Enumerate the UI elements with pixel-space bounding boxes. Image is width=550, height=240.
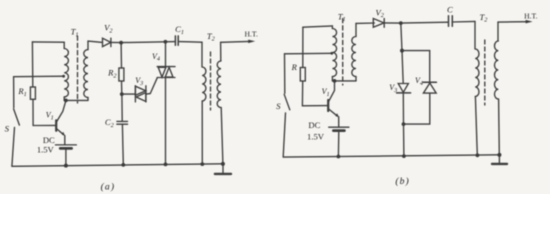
wire top-left segment (a): [32, 41, 64, 43]
transformer T2 primary winding (a): [201, 42, 203, 67]
arrow H.T. (b): [526, 20, 533, 24]
triac V4 (a): [157, 67, 175, 78]
wire T1 secondary top to diode (b): [356, 22, 374, 24]
transformer T1 core (b): [342, 19, 344, 86]
battery positive plate (a): [55, 144, 76, 146]
transformer T1 primary winding left (a): [63, 42, 65, 48]
capacitor C (b): [449, 16, 453, 26]
battery negative plate (a): [60, 147, 71, 150]
transistor V1 (b): [328, 81, 339, 127]
wire battery to rail (b): [337, 131, 339, 157]
svg-text:H.T.: H.T.: [524, 12, 537, 21]
node V4 branch top (a): [164, 40, 168, 44]
transformer T2 primary winding (b): [474, 21, 476, 49]
wire C2 to rail (a): [121, 124, 124, 165]
wire bottom node to rail (b): [403, 124, 405, 156]
transformer T2 core (a): [210, 52, 212, 110]
node T2-rail (b): [476, 153, 480, 157]
diode V2 (a): [103, 38, 111, 46]
switch S lower wire (a): [12, 127, 15, 166]
svg-text:V2: V2: [376, 7, 384, 19]
transformer T1 secondary winding right (b): [355, 23, 357, 36]
node V3/V4 top connector (b): [400, 49, 404, 53]
svg-text:V3: V3: [389, 83, 397, 94]
node T1 tap (a): [62, 75, 65, 78]
transformer T2 secondary winding (a): [220, 42, 222, 61]
diode V2 (b): [373, 19, 384, 28]
wire T1 tap to switch branch (b): [285, 52, 333, 55]
svg-text:R2: R2: [107, 68, 116, 80]
diac V3 lead left (a): [122, 93, 136, 95]
wire V4 to bottom node (b): [404, 93, 430, 124]
node battery-rail (b): [337, 155, 341, 159]
svg-text:(b): (b): [395, 176, 410, 187]
node battery-rail (a): [64, 164, 68, 168]
wire V3 branch upper (b): [401, 23, 403, 83]
wire H.T. output (b): [498, 21, 527, 23]
svg-text:DC: DC: [43, 135, 55, 145]
svg-text:V4: V4: [152, 52, 160, 63]
svg-text:V1: V1: [322, 87, 330, 98]
transistor V1 (a): [56, 101, 66, 145]
wire C to T2 (b): [452, 20, 475, 23]
battery positive plate (b): [329, 126, 349, 128]
svg-text:C2: C2: [105, 117, 114, 129]
svg-text:1.5V: 1.5V: [307, 131, 325, 141]
svg-text:R: R: [291, 62, 298, 72]
node V3/V4 bottom (b): [402, 122, 406, 126]
node after diode V2 (b): [399, 21, 403, 25]
transformer T1 secondary winding right (a): [87, 41, 89, 50]
svg-text:C1: C1: [175, 24, 184, 36]
resistor R2 (a): [119, 68, 124, 81]
bottom rail (b): [283, 155, 499, 157]
svg-text:T2: T2: [207, 31, 215, 43]
battery negative plate (b): [333, 129, 344, 132]
ground symbol (b): [498, 155, 500, 163]
arrow H.T. (a): [248, 40, 255, 44]
svg-text:V1: V1: [46, 111, 54, 122]
node rail end ground (b): [497, 153, 501, 157]
svg-text:T1: T1: [338, 11, 346, 23]
transformer T2 secondary winding (b): [497, 22, 499, 41]
wire C1 to T2 (a): [179, 41, 202, 44]
transformer T1 core (a): [77, 36, 79, 103]
wire R to base (b): [302, 81, 328, 106]
resistor R (b): [300, 68, 305, 82]
wire diode to C (b): [384, 21, 448, 24]
svg-text:R1: R1: [17, 86, 26, 98]
node rail end ground (a): [221, 162, 225, 166]
diode V3 (b): [397, 84, 411, 93]
wire T1 winding bottoms connector (a): [64, 99, 88, 101]
wire top-left segment (b): [303, 26, 333, 27]
switch S upper contact wire (b): [284, 54, 286, 94]
diac V3 (a): [135, 86, 146, 102]
node C2-rail (a): [121, 163, 125, 167]
wire V3 to triac gate (a): [146, 78, 157, 94]
wire R1 to base (a): [33, 99, 56, 125]
svg-text:(a): (a): [101, 182, 116, 193]
resistor R1 (a): [30, 87, 35, 99]
wire V3 to bottom node (b): [402, 93, 404, 124]
resistor R1 branch upper wire (a): [31, 42, 33, 87]
wire top connector to V4 (b): [402, 51, 430, 83]
node V4-rail (a): [164, 163, 168, 167]
wire battery to rail (a): [65, 148, 67, 165]
capacitor C1 (a): [175, 36, 178, 45]
svg-text:T2: T2: [479, 12, 487, 24]
node V3V4-rail (b): [402, 154, 406, 158]
svg-text:V3: V3: [135, 76, 143, 87]
node collector junction (b): [333, 79, 337, 83]
svg-text:C: C: [447, 5, 453, 15]
svg-text:DC: DC: [308, 120, 320, 130]
wire R2 to V3 node (a): [121, 81, 123, 94]
wire T1 winding bottoms connector (b): [332, 80, 356, 82]
svg-text:1.5V: 1.5V: [37, 144, 55, 154]
bottom rail (a): [12, 164, 223, 167]
switch S upper contact wire (a): [13, 77, 15, 108]
transformer T2 core (b): [484, 40, 486, 105]
svg-text:H.T.: H.T.: [245, 29, 258, 38]
transformer T1 primary winding left (b): [331, 26, 333, 29]
node V3 left (a): [120, 92, 124, 96]
node T1 tap (b): [330, 52, 333, 55]
svg-text:S: S: [5, 124, 10, 134]
node collector junction (a): [64, 99, 68, 103]
diode V4 (b): [423, 82, 436, 93]
node after diode V2 (a): [119, 41, 123, 45]
capacitor C2 (a): [117, 121, 128, 124]
switch S blade (a): [14, 109, 20, 125]
wire V4 anode (a): [165, 42, 167, 67]
wire V3 node to C2 (a): [121, 94, 123, 121]
svg-text:V4: V4: [415, 76, 423, 87]
switch S blade (b): [284, 94, 290, 110]
wire T1 tap to switch branch (a): [14, 75, 65, 78]
wire H.T. output (a): [221, 40, 250, 43]
ground symbol (a): [222, 164, 224, 173]
resistor R2 branch wire (a): [120, 43, 122, 68]
node T2-rail (a): [200, 162, 204, 166]
wire T1 secondary top to diode (a): [88, 41, 103, 42]
wire diode to C1 (a): [111, 42, 175, 43]
svg-text:V2: V2: [104, 23, 112, 35]
resistor R branch upper wire (b): [302, 27, 304, 67]
svg-text:S: S: [276, 101, 281, 111]
switch S lower wire (b): [283, 113, 285, 157]
wire V4 cathode to rail (a): [165, 78, 167, 165]
